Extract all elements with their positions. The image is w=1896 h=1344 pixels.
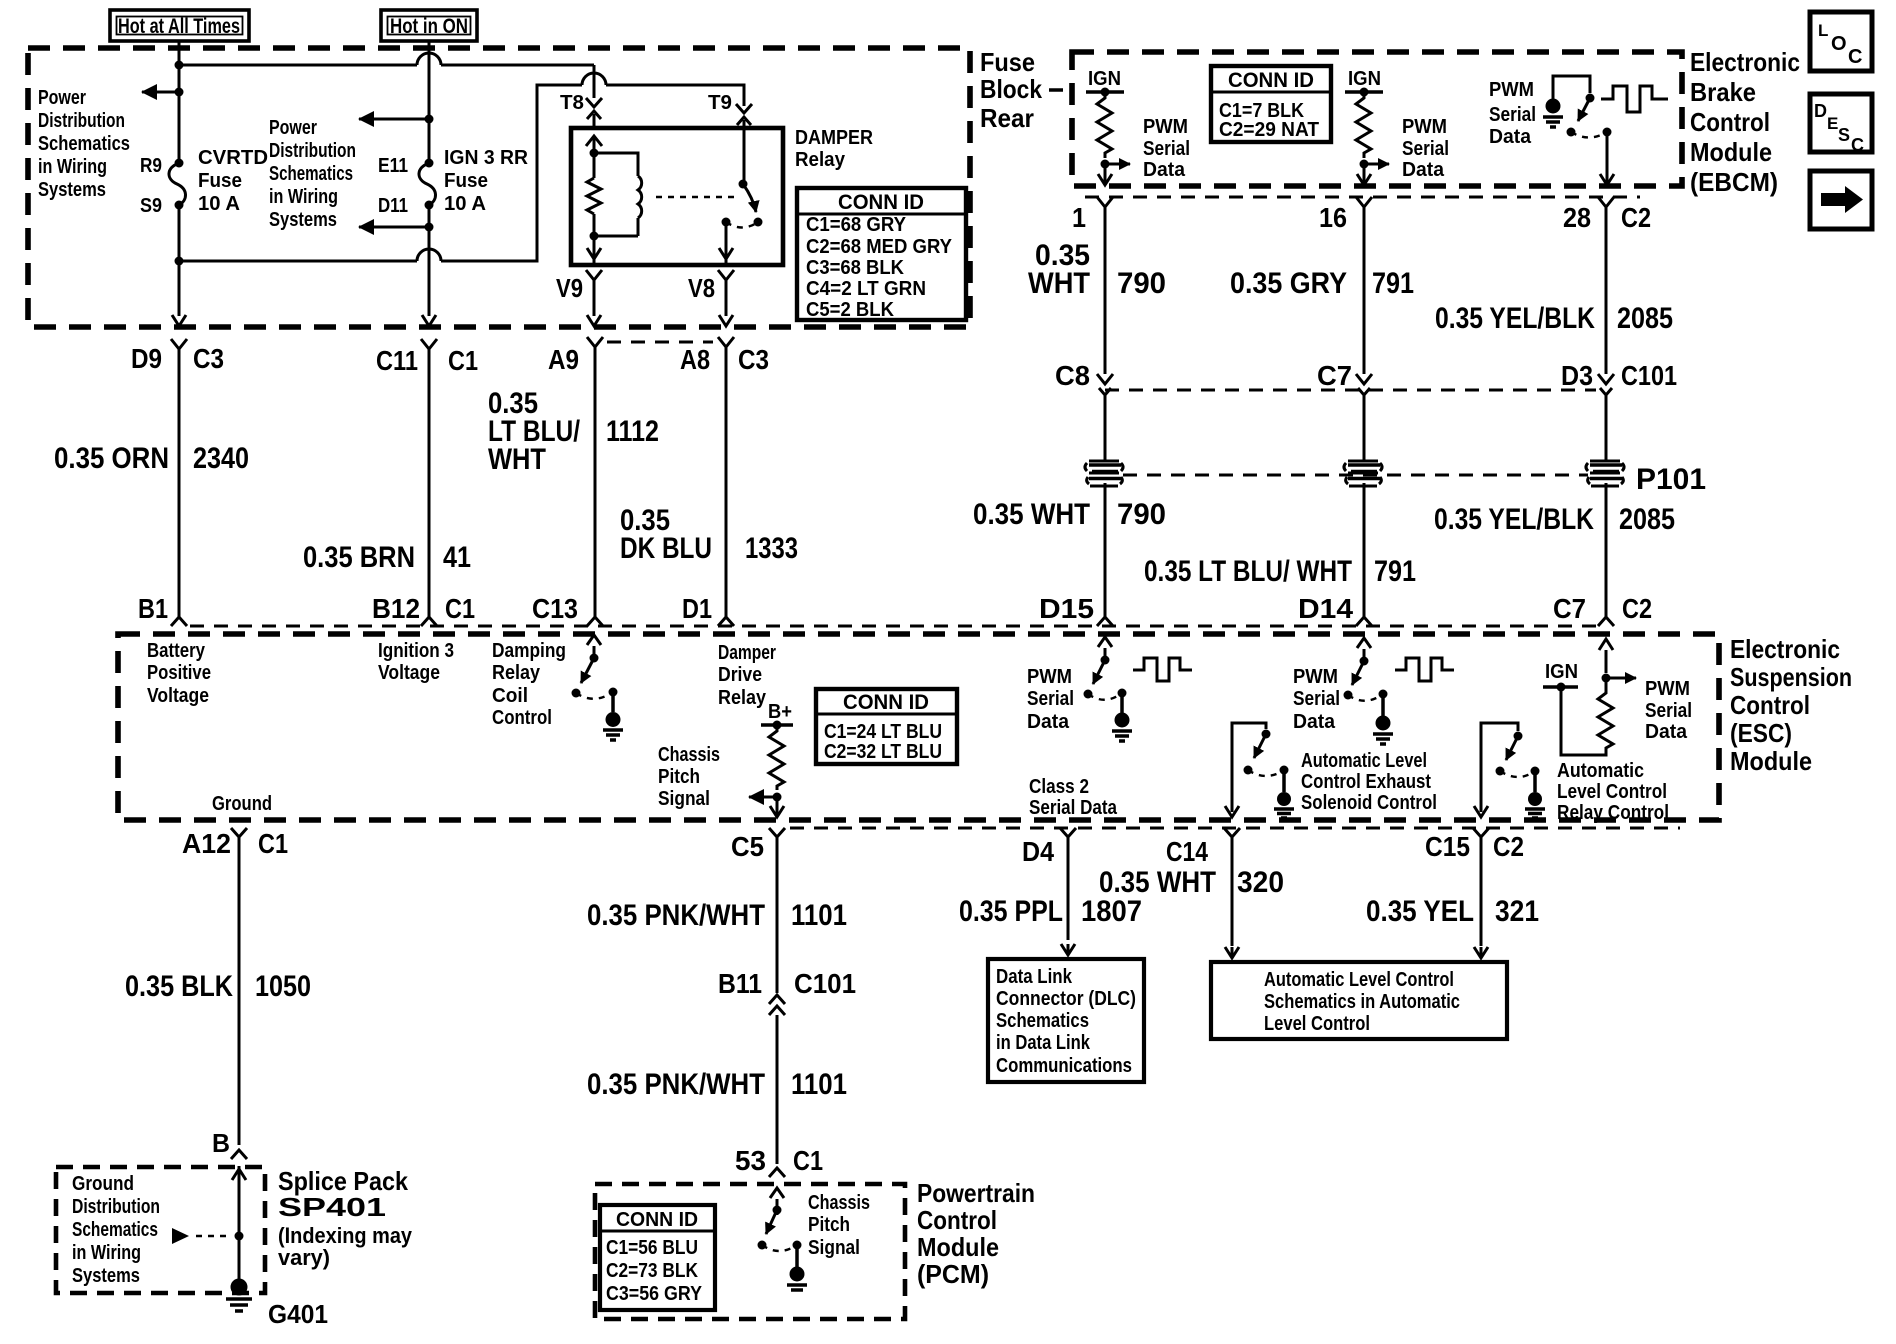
svg-text:PWM: PWM bbox=[1143, 116, 1188, 138]
svg-text:0.35 LT BLU/ WHT: 0.35 LT BLU/ WHT bbox=[1144, 555, 1352, 588]
conn id box: EBCM bbox=[1211, 66, 1331, 142]
svg-text:R9: R9 bbox=[140, 155, 162, 177]
svg-text:Systems: Systems bbox=[72, 1265, 140, 1287]
svg-text:D1: D1 bbox=[682, 593, 712, 624]
svg-text:Power: Power bbox=[269, 117, 317, 139]
svg-text:Ground: Ground bbox=[72, 1173, 134, 1195]
switch: automatic level control relay (C15) bbox=[1481, 723, 1518, 812]
svg-text:vary): vary) bbox=[278, 1245, 330, 1270]
svg-text:(PCM): (PCM) bbox=[917, 1259, 989, 1289]
svg-text:V8: V8 bbox=[688, 273, 715, 303]
svg-text:Control: Control bbox=[1730, 690, 1810, 720]
ground: D14 driver bbox=[1373, 694, 1393, 744]
node: splice junction bbox=[235, 1232, 244, 1241]
text: PWM Serial Data 1 bbox=[1143, 116, 1190, 181]
svg-text:CVRTD: CVRTD bbox=[198, 147, 268, 169]
svg-text:E: E bbox=[1827, 114, 1838, 133]
svg-text:320: 320 bbox=[1237, 866, 1284, 899]
svg-text:Voltage: Voltage bbox=[147, 685, 209, 707]
EBCM node IGN 1 bbox=[1086, 68, 1124, 97]
svg-text:PWM: PWM bbox=[1489, 79, 1534, 101]
wire: 41 BRN segment (C11 to B12) bbox=[428, 360, 431, 617]
svg-text:C3: C3 bbox=[193, 343, 224, 374]
arrow: C15 exit bbox=[1474, 806, 1488, 817]
svg-text:0.35 YEL: 0.35 YEL bbox=[1366, 895, 1474, 928]
connector 53/C1 at PCM bbox=[769, 1168, 785, 1177]
svg-text:Electronic: Electronic bbox=[1730, 634, 1840, 664]
svg-text:Control: Control bbox=[492, 707, 552, 729]
svg-text:Data: Data bbox=[1143, 159, 1186, 181]
svg-text:0.35 WHT: 0.35 WHT bbox=[1099, 866, 1216, 899]
label box: Hot in ON bbox=[381, 10, 477, 41]
svg-text:C2: C2 bbox=[1622, 593, 1652, 624]
svg-text:T9: T9 bbox=[708, 92, 732, 114]
svg-text:C15: C15 bbox=[1425, 831, 1470, 862]
svg-text:C101: C101 bbox=[794, 968, 856, 999]
ground: C14 driver bbox=[1274, 770, 1294, 818]
svg-text:C8: C8 bbox=[1055, 360, 1090, 391]
svg-text:SP401: SP401 bbox=[278, 1192, 386, 1222]
ground: EBCM driver ground bbox=[1543, 99, 1563, 128]
svg-text:Module: Module bbox=[1730, 746, 1812, 776]
svg-text:10 A: 10 A bbox=[444, 193, 486, 215]
wire: Hot in ON feed down bbox=[428, 41, 431, 163]
svg-text:IGN: IGN bbox=[1545, 661, 1578, 683]
text: PWM Serial Data (D14) bbox=[1293, 666, 1340, 733]
svg-text:Relay: Relay bbox=[492, 662, 541, 684]
svg-text:C14: C14 bbox=[1166, 836, 1208, 867]
svg-text:0.35 YEL/BLK: 0.35 YEL/BLK bbox=[1435, 302, 1595, 335]
svg-text:S: S bbox=[1838, 125, 1850, 145]
svg-text:PWM: PWM bbox=[1645, 678, 1690, 700]
icon button: DESC bbox=[1810, 94, 1872, 155]
ground: D15 driver bbox=[1112, 693, 1132, 741]
connector chevron pin 16 bbox=[1356, 197, 1372, 220]
connector chevron B1 bbox=[171, 617, 187, 626]
svg-text:C1=24 LT BLU: C1=24 LT BLU bbox=[824, 721, 942, 743]
svg-text:2085: 2085 bbox=[1617, 302, 1673, 335]
node: junction chassis pitch signal bbox=[773, 793, 782, 802]
connector chevron C7/C2 (ESC) bbox=[1598, 617, 1614, 626]
svg-text:1050: 1050 bbox=[255, 970, 311, 1003]
svg-text:Data: Data bbox=[1293, 711, 1336, 733]
text: Power Distribution Schematics in Wiring Systems (middle) bbox=[269, 117, 356, 231]
thin dashed connector line below EBCM bbox=[1085, 196, 1640, 199]
svg-text:Data: Data bbox=[1027, 711, 1070, 733]
svg-text:C: C bbox=[1848, 46, 1862, 68]
arrow: V8 exits fuse block bbox=[719, 315, 733, 326]
svg-text:Serial Data: Serial Data bbox=[1029, 797, 1118, 819]
connector C101 thin dashed line bbox=[1105, 389, 1596, 392]
text: Electronic Suspension Control (ESC) Module bbox=[1730, 634, 1852, 776]
relay switch: pivot from T9 bbox=[743, 128, 746, 184]
svg-text:T8: T8 bbox=[560, 92, 584, 114]
connector T9 at damper relay bbox=[736, 85, 752, 128]
connector C8 crossing bbox=[1097, 374, 1113, 462]
arrow: C5 exit bbox=[770, 797, 784, 817]
connector chevron D15 bbox=[1097, 617, 1113, 626]
svg-text:1101: 1101 bbox=[791, 1068, 847, 1101]
resistor in relay bbox=[587, 178, 601, 214]
svg-text:Control: Control bbox=[1690, 107, 1770, 137]
wire: S9 branch to damper relay T9 (hops over IGN wire then T8 wire) bbox=[179, 73, 744, 261]
svg-text:A9: A9 bbox=[548, 344, 579, 375]
arrow: C2 PWM output up bbox=[1599, 639, 1613, 673]
arrow: power distribution tap left bbox=[142, 91, 179, 94]
svg-text:C7: C7 bbox=[1553, 593, 1586, 624]
svg-text:C5: C5 bbox=[731, 831, 764, 862]
svg-text:1333: 1333 bbox=[745, 532, 798, 565]
square wave: D15 bbox=[1133, 658, 1192, 681]
svg-text:Automatic: Automatic bbox=[1557, 760, 1644, 782]
ESC module dashed box bbox=[118, 634, 1719, 820]
svg-text:0.35 PNK/WHT: 0.35 PNK/WHT bbox=[587, 1068, 765, 1101]
arrow: chassis pitch signal left bbox=[749, 796, 777, 799]
svg-text:Fuse: Fuse bbox=[198, 170, 242, 192]
svg-text:C2=73 BLK: C2=73 BLK bbox=[606, 1260, 698, 1282]
svg-text:C1: C1 bbox=[258, 828, 288, 859]
relay box: DAMPER Relay bbox=[571, 128, 783, 265]
svg-text:791: 791 bbox=[1374, 555, 1416, 588]
svg-text:P101: P101 bbox=[1636, 463, 1706, 496]
text: Power Distribution Schematics in Wiring Systems (left) bbox=[38, 87, 130, 201]
wire: 790 WHT upper segment bbox=[1104, 207, 1107, 374]
svg-text:B+: B+ bbox=[768, 701, 792, 723]
svg-text:Level Control: Level Control bbox=[1557, 781, 1667, 803]
text: Ignition 3 Voltage bbox=[378, 640, 454, 684]
conn id box: ESC bbox=[816, 689, 957, 764]
arrow: power distribution tap left (upper) bbox=[359, 118, 429, 121]
node: junction PWM (ESC) bbox=[1602, 674, 1611, 683]
arrow: C14 exit bbox=[1225, 806, 1239, 817]
svg-text:C1=68 GRY: C1=68 GRY bbox=[806, 214, 907, 236]
svg-text:10 A: 10 A bbox=[198, 193, 240, 215]
svg-text:O: O bbox=[1831, 33, 1847, 55]
svg-text:Communications: Communications bbox=[996, 1055, 1132, 1077]
svg-text:Ground: Ground bbox=[212, 793, 272, 815]
svg-text:Fuse: Fuse bbox=[444, 170, 488, 192]
svg-text:C3=68 BLK: C3=68 BLK bbox=[806, 257, 905, 279]
svg-text:790: 790 bbox=[1117, 498, 1166, 531]
connector chevron C5 bbox=[769, 828, 785, 848]
svg-text:1807: 1807 bbox=[1081, 895, 1142, 928]
wire: below IGN fuse down to C11 bbox=[428, 205, 431, 316]
svg-text:Connector (DLC): Connector (DLC) bbox=[996, 988, 1136, 1010]
svg-text:PWM: PWM bbox=[1027, 666, 1072, 688]
svg-text:Chassis: Chassis bbox=[658, 744, 720, 766]
svg-text:Damper: Damper bbox=[718, 642, 776, 664]
svg-text:in Wiring: in Wiring bbox=[72, 1242, 141, 1264]
label box: Hot at All Times bbox=[110, 10, 249, 41]
svg-text:Systems: Systems bbox=[38, 179, 106, 201]
svg-text:G401: G401 bbox=[268, 1299, 328, 1329]
svg-text:Schematics: Schematics bbox=[38, 133, 130, 155]
svg-text:D15: D15 bbox=[1039, 593, 1094, 624]
svg-text:D9: D9 bbox=[131, 343, 162, 374]
box: Data Link Connector (DLC) Schematics in Data Link Communications bbox=[988, 959, 1144, 1082]
svg-text:Suspension: Suspension bbox=[1730, 662, 1852, 692]
thin dashed connector line between A9 and A8 bbox=[607, 341, 713, 344]
text: Fuse Block - Rear bbox=[980, 47, 1063, 133]
switch: EBCM PWM driver bbox=[1553, 76, 1590, 106]
text: Damping Relay Coil Control bbox=[492, 640, 566, 729]
svg-text:Rear: Rear bbox=[980, 103, 1034, 133]
svg-text:DAMPER: DAMPER bbox=[795, 127, 873, 149]
svg-text:1112: 1112 bbox=[606, 415, 659, 448]
svg-text:Automatic Level: Automatic Level bbox=[1301, 750, 1427, 772]
svg-text:41: 41 bbox=[443, 541, 471, 574]
ground: damping relay driver bbox=[603, 692, 623, 740]
svg-text:Serial: Serial bbox=[1645, 700, 1692, 722]
svg-text:Control Exhaust: Control Exhaust bbox=[1301, 771, 1431, 793]
wire: 1333 DK BLU segment (A8 to D1) bbox=[725, 360, 728, 617]
wire: Hot at All Times feed down into fuse block bbox=[178, 41, 181, 163]
svg-text:IGN: IGN bbox=[1348, 68, 1381, 90]
svg-text:Ignition 3: Ignition 3 bbox=[378, 640, 454, 662]
svg-text:Relay: Relay bbox=[718, 687, 767, 709]
wire: 1050 BLK ground wire bbox=[238, 848, 241, 1145]
svg-text:PWM: PWM bbox=[1293, 666, 1338, 688]
svg-text:C1=56 BLU: C1=56 BLU bbox=[606, 1237, 698, 1259]
svg-text:1101: 1101 bbox=[791, 899, 847, 932]
conn id box: fuse block rear bbox=[797, 188, 966, 321]
svg-text:B11: B11 bbox=[718, 968, 762, 999]
arrow: pin 28 exit bbox=[1600, 132, 1614, 185]
svg-text:Damping: Damping bbox=[492, 640, 566, 662]
grommet 2 bbox=[1344, 461, 1382, 486]
splice pack dashed box bbox=[56, 1167, 265, 1293]
node: B+ bbox=[761, 701, 793, 730]
fuse IGN 3 RR: E11/D11 terminals bbox=[425, 159, 434, 168]
svg-text:Level Control: Level Control bbox=[1264, 1013, 1370, 1035]
wire: 321 YEL to ALC bbox=[1474, 848, 1488, 958]
arrow: C11 exits fuse block bbox=[422, 315, 436, 326]
resistor: chassis pitch divider bbox=[769, 725, 784, 790]
switch: PWM serial data D14 bbox=[1357, 638, 1371, 665]
thin dashed connector line below ESC bbox=[790, 827, 1680, 830]
svg-text:Schematics: Schematics bbox=[269, 163, 353, 185]
svg-text:PWM: PWM bbox=[1402, 116, 1447, 138]
connector chevron C13 bbox=[587, 617, 603, 626]
arrow: D9 exits fuse block bbox=[172, 315, 186, 326]
svg-text:S9: S9 bbox=[140, 195, 162, 217]
svg-text:Module: Module bbox=[917, 1232, 999, 1262]
connector C7 crossing bbox=[1356, 374, 1372, 462]
wire: 790 WHT lower segment bbox=[1104, 483, 1107, 617]
svg-text:WHT: WHT bbox=[488, 443, 546, 476]
svg-text:C7: C7 bbox=[1317, 360, 1352, 391]
svg-text:CONN ID: CONN ID bbox=[1228, 69, 1314, 92]
svg-text:C1: C1 bbox=[448, 345, 478, 376]
text: Automatic Level Control Relay Control bbox=[1557, 760, 1669, 824]
svg-text:A8: A8 bbox=[680, 344, 710, 375]
svg-text:53: 53 bbox=[735, 1145, 766, 1176]
arrow: pin 1 exit bbox=[1098, 164, 1112, 185]
text: IGN 3 RR Fuse 10 A bbox=[444, 147, 529, 215]
grommet dashed line P101 bbox=[1123, 474, 1588, 477]
connector chevron C15/C2 bbox=[1473, 828, 1489, 848]
arrow: pin 16 exit bbox=[1357, 164, 1371, 185]
text: CVRTD Fuse 10 A bbox=[198, 147, 268, 215]
svg-text:Serial: Serial bbox=[1293, 688, 1340, 710]
svg-text:2085: 2085 bbox=[1619, 503, 1675, 536]
svg-text:Serial: Serial bbox=[1027, 688, 1074, 710]
connector chevron D1 bbox=[718, 617, 734, 626]
arrow: PWM serial data right (ESC) bbox=[1606, 677, 1636, 680]
svg-text:C3=56 GRY: C3=56 GRY bbox=[606, 1283, 703, 1305]
svg-text:16: 16 bbox=[1319, 202, 1347, 233]
svg-text:Automatic Level Control: Automatic Level Control bbox=[1264, 969, 1454, 991]
grommet 1 bbox=[1085, 461, 1123, 486]
wire: 2340 ORN segment (D9 to B1) bbox=[178, 360, 181, 617]
svg-text:1: 1 bbox=[1072, 202, 1086, 233]
box: Automatic Level Control Schematics in Automatic Level Control bbox=[1211, 962, 1507, 1039]
svg-text:0.35 PNK/WHT: 0.35 PNK/WHT bbox=[587, 899, 765, 932]
svg-text:0.35 WHT: 0.35 WHT bbox=[973, 498, 1090, 531]
wire: 2085 YEL/BLK upper segment bbox=[1605, 207, 1608, 374]
resistor: EBCM pullup 1 bbox=[1097, 92, 1112, 158]
svg-text:0.35 PPL: 0.35 PPL bbox=[959, 895, 1063, 928]
text: PWM Serial Data (D15) bbox=[1027, 666, 1074, 733]
connector T8 at damper relay bbox=[586, 65, 602, 128]
switch: damping relay coil control (C13) bbox=[587, 635, 601, 662]
svg-text:Electronic: Electronic bbox=[1690, 47, 1800, 77]
connector chevron V8 bbox=[718, 270, 734, 316]
svg-text:Pitch: Pitch bbox=[658, 766, 700, 788]
svg-text:0.35 YEL/BLK: 0.35 YEL/BLK bbox=[1434, 503, 1594, 536]
svg-text:Serial: Serial bbox=[1489, 104, 1536, 126]
connector chevron A9 bbox=[587, 337, 603, 360]
connector chevron pin 28 / C2 bbox=[1598, 197, 1614, 220]
switch: chassis pitch signal (PCM) bbox=[770, 1188, 784, 1215]
resistor: ESC pullup bbox=[1561, 678, 1613, 755]
svg-text:C1: C1 bbox=[793, 1145, 823, 1176]
svg-text:Voltage: Voltage bbox=[378, 662, 440, 684]
svg-text:CONN ID: CONN ID bbox=[616, 1209, 698, 1231]
svg-text:2340: 2340 bbox=[193, 442, 249, 475]
svg-text:0.35 GRY: 0.35 GRY bbox=[1230, 267, 1347, 300]
wire: top feed line to damper relay T8 (hops over IGN wire) bbox=[179, 53, 594, 65]
square wave: D14 bbox=[1395, 658, 1454, 681]
svg-text:0.35 BRN: 0.35 BRN bbox=[303, 541, 415, 574]
svg-text:Class 2: Class 2 bbox=[1029, 776, 1089, 798]
text: Automatic Level Control Exhaust Solenoid Control bbox=[1301, 750, 1437, 814]
dashed link coil to switch bbox=[656, 196, 737, 198]
svg-text:C11: C11 bbox=[376, 345, 418, 376]
text: PWM Serial Data (ESC right) bbox=[1645, 678, 1692, 743]
svg-text:0.35 ORN: 0.35 ORN bbox=[54, 442, 169, 475]
wire: 791 GRY upper segment bbox=[1363, 207, 1366, 374]
svg-text:C1: C1 bbox=[445, 593, 475, 624]
svg-text:C13: C13 bbox=[532, 593, 578, 624]
connector chevron pin 1 bbox=[1097, 197, 1113, 220]
wire: 1807 PPL class 2 serial data bbox=[1061, 848, 1075, 955]
ground: PCM input bbox=[787, 1245, 807, 1290]
square wave: EBCM PWM bbox=[1601, 86, 1668, 112]
node: junction at top of CVRTD feed bbox=[175, 61, 184, 70]
svg-text:IGN 3 RR: IGN 3 RR bbox=[444, 147, 529, 169]
ground G401 bbox=[226, 1279, 328, 1330]
svg-text:D3: D3 bbox=[1561, 360, 1593, 391]
icon button: LOC bbox=[1810, 12, 1872, 71]
svg-text:C3: C3 bbox=[738, 344, 769, 375]
svg-text:B12: B12 bbox=[372, 593, 420, 624]
svg-text:Hot at All Times: Hot at All Times bbox=[118, 15, 240, 38]
svg-text:Schematics in Automatic: Schematics in Automatic bbox=[1264, 991, 1460, 1013]
svg-text:Schematics: Schematics bbox=[996, 1010, 1089, 1032]
svg-text:Powertrain: Powertrain bbox=[917, 1178, 1035, 1208]
svg-text:C: C bbox=[1851, 135, 1864, 155]
svg-text:Data Link: Data Link bbox=[996, 966, 1073, 988]
svg-text:C2=29 NAT: C2=29 NAT bbox=[1219, 119, 1319, 141]
connector chevron A12/C1 bbox=[231, 828, 247, 848]
svg-text:CONN ID: CONN ID bbox=[838, 191, 924, 214]
svg-text:Positive: Positive bbox=[147, 662, 211, 684]
svg-text:Distribution: Distribution bbox=[38, 110, 125, 132]
svg-text:B1: B1 bbox=[138, 593, 168, 624]
svg-text:Coil: Coil bbox=[492, 685, 528, 707]
arrow: V9 exits fuse block bbox=[587, 315, 601, 326]
text: Ground Distribution Schematics in Wiring Systems bbox=[72, 1173, 160, 1287]
svg-text:C101: C101 bbox=[1621, 360, 1677, 391]
svg-text:Pitch: Pitch bbox=[808, 1214, 850, 1236]
svg-text:WHT: WHT bbox=[1028, 267, 1090, 300]
svg-text:D: D bbox=[1814, 101, 1827, 121]
svg-text:Signal: Signal bbox=[808, 1237, 860, 1259]
text: Chassis Pitch Signal (PCM) bbox=[808, 1192, 870, 1259]
wire: 1112 LT BLU/WHT segment (A9 to C13) bbox=[594, 360, 597, 617]
icon button: arrow bbox=[1810, 171, 1872, 229]
node: junction PWM serial data 2 bbox=[1360, 160, 1369, 169]
svg-text:Serial: Serial bbox=[1402, 138, 1449, 160]
svg-text:D14: D14 bbox=[1298, 593, 1353, 624]
fuse block dashed box bbox=[28, 48, 970, 327]
svg-text:CONN ID: CONN ID bbox=[843, 691, 929, 714]
svg-text:in Wiring: in Wiring bbox=[269, 186, 338, 208]
connector chevron C11/C1 bbox=[421, 339, 437, 360]
svg-text:Chassis: Chassis bbox=[808, 1192, 870, 1214]
connector D3 / C101 crossing bbox=[1598, 374, 1614, 462]
text: Chassis Pitch Signal (ESC) bbox=[658, 744, 720, 810]
svg-text:C5=2 BLK: C5=2 BLK bbox=[806, 299, 895, 321]
svg-text:Battery: Battery bbox=[147, 640, 206, 662]
relay coil (inductor) bbox=[594, 153, 642, 236]
text: Class 2 Serial Data bbox=[1029, 776, 1118, 819]
svg-text:(ESC): (ESC) bbox=[1730, 718, 1792, 748]
connector chevron D4 bbox=[1060, 828, 1076, 848]
svg-text:C4=2 LT GRN: C4=2 LT GRN bbox=[806, 278, 926, 300]
thin dashed connector line above ESC bbox=[190, 625, 1596, 628]
EBCM node IGN 2 bbox=[1345, 68, 1383, 97]
svg-text:Schematics: Schematics bbox=[72, 1219, 158, 1241]
text: Splice Pack SP401 (Indexing may vary) bbox=[278, 1166, 413, 1270]
svg-text:C2=32 LT BLU: C2=32 LT BLU bbox=[824, 741, 942, 763]
svg-text:Hot in ON: Hot in ON bbox=[390, 15, 468, 38]
wire: 2085 YEL/BLK lower segment bbox=[1605, 483, 1608, 617]
svg-text:Relay: Relay bbox=[795, 149, 846, 171]
wire: 791 LT BLU/WHT lower segment bbox=[1363, 483, 1366, 617]
svg-text:(EBCM): (EBCM) bbox=[1690, 167, 1778, 197]
wire: 1101 PNK/WHT upper segment bbox=[776, 848, 779, 993]
svg-text:Signal: Signal bbox=[658, 788, 710, 810]
svg-text:E11: E11 bbox=[378, 155, 408, 177]
text: PWM Serial Data 2 bbox=[1402, 116, 1449, 181]
conn id box: PCM bbox=[600, 1205, 715, 1310]
svg-text:V9: V9 bbox=[556, 273, 583, 303]
switch: PWM serial data D15 bbox=[1098, 637, 1112, 664]
arrow: PWM serial data right 1 bbox=[1105, 163, 1130, 166]
text: Powertrain Control Module (PCM) bbox=[917, 1178, 1035, 1289]
